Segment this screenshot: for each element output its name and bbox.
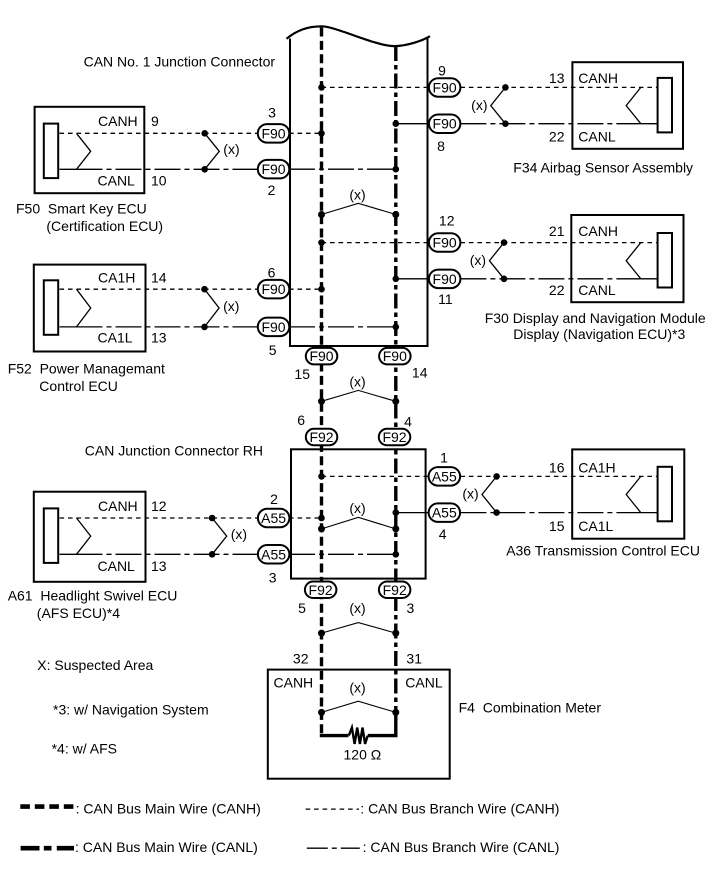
svg-text:CANH: CANH	[98, 113, 138, 129]
wire branch CANH to A36	[460, 475, 657, 477]
legend sample: CAN bus main wire CANH	[20, 804, 74, 809]
wire branch from F90 pin6 (dashed, inside box1)	[289, 288, 322, 290]
svg-text:CANH: CANH	[578, 223, 618, 239]
legend sample: CAN bus branch wire CANH	[306, 808, 359, 810]
wire branch from F90 pin2 (dash-dot, inside box1)	[289, 168, 396, 170]
svg-text:F92: F92	[383, 582, 407, 598]
connector F92 pin3 (box2 bottom CANL)	[379, 582, 411, 599]
svg-text:(x): (x)	[349, 680, 365, 696]
svg-text:*3: w/ Navigation System: *3: w/ Navigation System	[53, 702, 209, 718]
wire branch CANL to A36	[460, 512, 640, 514]
svg-text:CANL: CANL	[578, 129, 616, 145]
resistor 120 ohm lead left	[320, 734, 349, 737]
svg-text:A55: A55	[432, 468, 457, 484]
wire branch CANH to F34	[460, 86, 657, 88]
wire branch CANH from F52	[60, 288, 259, 290]
ECU box F4 combination meter	[268, 670, 450, 779]
connector A55 pin1	[429, 467, 461, 486]
svg-text:Display (Navigation ECU)*3: Display (Navigation ECU)*3	[513, 326, 685, 342]
connector F90 pin9	[429, 78, 461, 97]
svg-text:4: 4	[404, 414, 412, 430]
svg-text:(x): (x)	[470, 252, 486, 268]
svg-text:21: 21	[549, 223, 565, 239]
wire branch CANL from F50	[77, 168, 259, 170]
suspect chevron between box1 and box2 on main wires	[318, 373, 399, 405]
svg-text:10: 10	[151, 172, 167, 188]
node dot CANL/pin11	[393, 276, 400, 283]
svg-text:6: 6	[297, 412, 305, 428]
svg-text:13: 13	[151, 329, 167, 345]
suspect chevron node dots A61	[209, 515, 216, 522]
svg-text:(x): (x)	[349, 187, 365, 203]
svg-text:F4 Combination Meter: F4 Combination Meter	[459, 700, 602, 716]
connector F90 pin2	[258, 160, 290, 179]
wire branch to F90 pin9 (dashed, inside box1)	[322, 86, 430, 88]
svg-text:F92: F92	[382, 429, 406, 445]
node dot CANL/pin3	[393, 551, 400, 558]
svg-text:2: 2	[268, 182, 276, 198]
node dot CANH/pin2	[318, 515, 325, 522]
wire branch CANH from A61	[60, 517, 259, 519]
svg-text:5: 5	[298, 600, 306, 616]
connector F92 pin6 (box2 top CANH)	[306, 429, 338, 446]
svg-text:CA1H: CA1H	[578, 459, 615, 475]
svg-text:CA1L: CA1L	[98, 329, 133, 345]
svg-text:15: 15	[294, 366, 310, 382]
wire CANL main solid bottom segment	[394, 712, 397, 737]
wire branch CANL to F30	[460, 278, 640, 280]
F34 connector pin bar	[658, 78, 672, 132]
node dot CANH/pin1	[318, 473, 325, 480]
svg-text:A61 Headlight Swivel ECU: A61 Headlight Swivel ECU	[8, 587, 178, 603]
wire branch CANL solid stub A36	[641, 512, 658, 514]
svg-text:12: 12	[439, 213, 455, 229]
wire branch to F90 pin8 (solid, inside box1)	[396, 123, 429, 125]
svg-text:F90: F90	[433, 235, 457, 251]
wire branch from F90 pin5 (dash-dot, inside box1)	[289, 326, 396, 328]
ECU box F52	[34, 265, 146, 352]
connector F90 pin6	[258, 280, 290, 299]
connector F90 pin11	[429, 270, 461, 289]
svg-text:CANL: CANL	[405, 674, 443, 690]
suspect chevron inside box2 on main wires	[318, 500, 399, 532]
wire CANL main (thick dash-dot vertical)	[394, 46, 397, 712]
junction connector box CAN No.1 (torn-top outline)	[287, 26, 431, 347]
svg-text:CANL: CANL	[98, 558, 136, 574]
svg-text:F90: F90	[309, 348, 333, 364]
ECU box F34	[572, 62, 683, 149]
svg-text:16: 16	[549, 459, 565, 475]
svg-text:32: 32	[293, 651, 309, 667]
node dot CANL/pin4	[393, 509, 400, 516]
node dot CANH/pin3	[318, 130, 325, 137]
wire branch CANL from A61 (solid stub)	[60, 553, 77, 555]
suspect chevron inside F4 meter on main wires	[318, 680, 399, 716]
wire branch to A55 pin4 (solid, inside box2)	[396, 512, 429, 514]
suspect chevron node dots A36	[493, 473, 500, 480]
svg-text:: CAN Bus Branch Wire (CANL): : CAN Bus Branch Wire (CANL)	[363, 839, 560, 855]
F34 internal chevron	[626, 87, 641, 123]
A61 connector pin bar	[44, 508, 58, 563]
svg-text:: CAN Bus Main Wire (CANL): : CAN Bus Main Wire (CANL)	[75, 839, 258, 855]
svg-text:2: 2	[270, 491, 278, 507]
svg-text:1: 1	[440, 450, 448, 466]
junction connector box CAN RH	[291, 449, 426, 578]
svg-text:(x): (x)	[231, 526, 247, 542]
wire branch to F90 pin12 (dashed, inside box1)	[322, 242, 430, 244]
svg-text:(Certification ECU): (Certification ECU)	[46, 218, 163, 234]
connector F90 pin12	[429, 233, 461, 252]
svg-text:: CAN Bus Branch Wire (CANH): : CAN Bus Branch Wire (CANH)	[360, 800, 559, 816]
suspect chevron below box2 on main wires	[318, 600, 399, 636]
node dot CANH/pin6	[318, 286, 325, 293]
svg-text:3: 3	[268, 105, 276, 121]
svg-text:(x): (x)	[349, 600, 365, 616]
connector F92 pin4 (box2 top CANL)	[379, 429, 411, 446]
suspect chevron node dots F52	[201, 286, 208, 293]
svg-text:120 Ω: 120 Ω	[344, 747, 382, 763]
A61 internal chevron	[77, 518, 91, 554]
svg-text:: CAN Bus Main Wire (CANH): : CAN Bus Main Wire (CANH)	[76, 800, 261, 816]
resistor 120 ohm lead right	[368, 734, 398, 737]
connector F90 pin3	[258, 124, 290, 143]
wire branch from A55 pin3 (dash-dot, inside box2)	[289, 553, 396, 555]
svg-text:(x): (x)	[349, 500, 365, 516]
svg-text:14: 14	[151, 269, 167, 285]
svg-text:4: 4	[439, 526, 447, 542]
wire branch CANH to F30	[460, 242, 657, 244]
svg-text:Control ECU: Control ECU	[39, 378, 118, 394]
connector F90 pin8	[429, 115, 461, 134]
svg-text:A55: A55	[261, 546, 286, 562]
connector F90 pin15 (box1 bottom CANH)	[306, 348, 338, 365]
svg-text:X: Suspected Area: X: Suspected Area	[37, 657, 153, 673]
svg-text:*4: w/ AFS: *4: w/ AFS	[52, 741, 117, 757]
svg-text:A55: A55	[261, 510, 286, 526]
wire CANH main (thick dashed vertical)	[320, 28, 323, 736]
ECU box F50	[35, 107, 145, 193]
legend sample: CAN bus branch wire CANL	[307, 847, 360, 849]
svg-text:F52 Power Managemant: F52 Power Managemant	[8, 361, 165, 377]
suspect chevron node dots F30	[501, 239, 508, 246]
svg-text:31: 31	[406, 651, 422, 667]
suspect chevron node dots F50	[201, 130, 208, 137]
svg-text:F90: F90	[383, 348, 407, 364]
svg-text:CAN No. 1 Junction Connector: CAN No. 1 Junction Connector	[84, 54, 276, 70]
node dot CANH/pin12	[318, 239, 325, 246]
svg-text:9: 9	[151, 113, 159, 129]
svg-text:F90: F90	[433, 271, 457, 287]
svg-text:15: 15	[549, 518, 565, 534]
svg-text:CANL: CANL	[98, 172, 136, 188]
svg-text:F90: F90	[433, 116, 457, 132]
ECU box F30	[571, 215, 683, 302]
F30 connector pin bar	[658, 233, 672, 288]
A36 connector pin bar	[658, 467, 672, 522]
svg-text:F90: F90	[261, 125, 285, 141]
A36 internal chevron	[626, 476, 641, 512]
svg-text:6: 6	[268, 264, 276, 280]
connector F90 pin5	[258, 318, 290, 337]
wire branch from F90 pin3 (dashed, inside box1)	[289, 132, 322, 134]
legend sample: CAN bus main wire CANL	[21, 846, 74, 851]
wire branch CANL from A61	[77, 553, 259, 555]
svg-text:CANL: CANL	[578, 282, 616, 298]
F30 internal chevron	[626, 243, 641, 279]
svg-text:A36 Transmission Control ECU: A36 Transmission Control ECU	[506, 543, 700, 559]
suspect chevron node dots F34	[502, 84, 509, 91]
connector A55 pin2	[258, 509, 290, 528]
svg-text:3: 3	[269, 570, 277, 586]
connector F92 pin5 (box2 bottom CANH)	[305, 582, 337, 599]
wire branch CANL from F50 (solid stub)	[60, 168, 77, 170]
connector F90 pin14 (box1 bottom CANL)	[379, 348, 411, 365]
svg-text:3: 3	[407, 600, 415, 616]
svg-text:CANH: CANH	[578, 70, 618, 86]
svg-text:F90: F90	[261, 319, 285, 335]
svg-text:9: 9	[438, 62, 446, 78]
svg-text:(x): (x)	[462, 486, 478, 502]
svg-text:12: 12	[151, 498, 167, 514]
ECU box A61	[34, 492, 146, 582]
wire branch from A55 pin2 (dashed, inside box2)	[289, 517, 322, 519]
wire branch CANL solid stub F34	[641, 123, 658, 125]
svg-text:F30 Display and Navigation Mod: F30 Display and Navigation Module	[485, 310, 706, 326]
node dot CANL/pin8	[393, 120, 400, 127]
svg-text:F90: F90	[261, 161, 285, 177]
wire branch CANL from F52 (solid stub)	[60, 326, 77, 328]
svg-text:(x): (x)	[349, 373, 365, 389]
wire branch CANH from F50	[60, 132, 259, 134]
connector A55 pin4	[429, 503, 461, 522]
wire branch CANL solid stub F30	[641, 278, 658, 280]
svg-text:F90: F90	[261, 281, 285, 297]
resistor 120 ohm zigzag	[349, 728, 368, 744]
wire branch CANL to F34	[460, 123, 640, 125]
svg-text:CANH: CANH	[98, 498, 138, 514]
svg-text:5: 5	[269, 342, 277, 358]
svg-text:CANH: CANH	[274, 674, 314, 690]
svg-text:(x): (x)	[223, 298, 239, 314]
svg-text:F90: F90	[433, 79, 457, 95]
svg-text:14: 14	[412, 365, 428, 381]
wire branch to A55 pin1 (dashed, inside box2)	[322, 475, 430, 477]
svg-text:F50 Smart Key ECU: F50 Smart Key ECU	[16, 201, 147, 217]
connector A55 pin3	[258, 545, 290, 564]
svg-text:CA1L: CA1L	[578, 518, 613, 534]
svg-text:(x): (x)	[471, 97, 487, 113]
node dot CANL/pin2	[393, 166, 400, 173]
suspect chevron inside box1 on main wires	[318, 187, 399, 219]
svg-text:8: 8	[437, 138, 445, 154]
wire branch CANL from F52	[77, 326, 259, 328]
svg-text:CA1H: CA1H	[98, 269, 135, 285]
svg-text:F34 Airbag Sensor Assembly: F34 Airbag Sensor Assembly	[513, 160, 693, 176]
F52 internal chevron	[77, 289, 91, 327]
F52 connector pin bar	[44, 280, 58, 335]
node dot CANL/pin5	[393, 324, 400, 331]
node dot CANH/pin9	[318, 84, 325, 91]
svg-text:CAN Junction Connector RH: CAN Junction Connector RH	[85, 443, 263, 459]
wire branch to F90 pin11 (solid, inside box1)	[396, 278, 429, 280]
ECU box A36	[572, 449, 684, 538]
svg-text:22: 22	[549, 282, 565, 298]
svg-text:(x): (x)	[223, 141, 239, 157]
F50 connector pin bar	[44, 124, 58, 179]
svg-text:A55: A55	[432, 505, 457, 521]
svg-text:F92: F92	[309, 582, 333, 598]
svg-text:(AFS ECU)*4: (AFS ECU)*4	[37, 605, 120, 621]
svg-text:13: 13	[151, 558, 167, 574]
svg-text:22: 22	[549, 129, 565, 145]
F50 internal chevron	[77, 133, 91, 169]
svg-text:F92: F92	[309, 429, 333, 445]
svg-text:13: 13	[549, 70, 565, 86]
svg-text:11: 11	[438, 291, 453, 307]
